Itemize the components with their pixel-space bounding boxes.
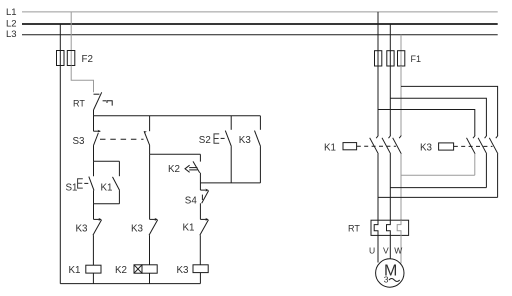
svg-text:F2: F2 <box>82 54 93 65</box>
wire left control rail (L2 down to bottom rail) <box>59 66 61 284</box>
pushbutton S1 <box>66 161 95 204</box>
wire L2 phase down (power) <box>389 24 391 51</box>
fuse F2 <box>57 51 93 66</box>
wire S1 branch bottom <box>94 203 120 205</box>
mechanical link K3 (dashed) <box>454 145 493 147</box>
coil K1 <box>69 265 102 284</box>
svg-text:K1: K1 <box>183 223 195 234</box>
pushbutton S2 <box>199 116 232 183</box>
svg-text:V: V <box>383 246 389 256</box>
contact K1 pole 2 <box>382 136 391 221</box>
contact K3 (NC, column B) <box>131 218 158 265</box>
svg-text:K3: K3 <box>131 224 144 235</box>
contact K1 (NO, parallel with S1) <box>101 161 120 204</box>
mechanical link S3 (dashed) <box>100 138 144 140</box>
svg-text:W: W <box>394 246 402 256</box>
wire RT to motor V <box>389 235 391 259</box>
node L3 <box>6 29 17 40</box>
node L1 <box>6 7 17 18</box>
wire phase2 to K1 pole2 <box>389 66 391 136</box>
svg-text:U: U <box>369 246 375 256</box>
contact K3 pole 2 <box>478 136 487 188</box>
wire branch phase3 to K3 pole3 <box>401 86 498 135</box>
thermal overload RT <box>348 220 409 235</box>
svg-text:K3: K3 <box>76 224 89 235</box>
svg-text:S2: S2 <box>199 135 211 146</box>
svg-text:S4: S4 <box>185 195 198 206</box>
wire L1 rail <box>22 11 498 13</box>
svg-text:RT: RT <box>348 224 360 234</box>
wire K3 pole1 to phase3 (reversal) <box>401 174 475 176</box>
wire branch phase1 to K3 pole1 <box>378 110 475 136</box>
svg-text:L2: L2 <box>6 19 17 30</box>
wire S3 pole2 to K2 contact <box>150 153 201 155</box>
wire RT to motor W <box>400 235 402 263</box>
contact K3 (NO, right of S2) <box>239 116 261 183</box>
contactor K3 coil box <box>420 143 454 154</box>
contact K3 pole 1 <box>467 136 476 176</box>
svg-text:F1: F1 <box>411 54 422 64</box>
svg-text:S3: S3 <box>73 136 86 147</box>
contact K1 pole 3 <box>393 136 402 221</box>
svg-text:3: 3 <box>384 275 389 285</box>
node L2 <box>6 19 17 30</box>
wire RT to junction <box>93 110 95 116</box>
svg-text:K3: K3 <box>420 143 433 154</box>
wire S1 branch top <box>94 160 120 162</box>
switch S4 <box>185 183 209 220</box>
svg-text:L1: L1 <box>6 7 17 18</box>
svg-text:K1: K1 <box>69 265 81 276</box>
svg-text:K3: K3 <box>177 265 190 276</box>
wire phase1 to K1 pole1 <box>377 66 379 136</box>
wire L2 to fuse F2 left <box>59 24 61 51</box>
wire L1 to fuse F2 right <box>70 12 72 51</box>
contact K1 (NC, column C) <box>183 218 209 265</box>
svg-text:RT: RT <box>73 99 85 109</box>
contact K2 (impulse, arrow) <box>168 154 200 183</box>
wire K3 pole2 to phase2 <box>390 187 486 189</box>
wire L3 phase down (power) <box>400 35 402 51</box>
contact K1 pole 1 <box>370 136 379 221</box>
contactor K1 coil box <box>324 143 357 154</box>
wire column A down <box>93 204 95 220</box>
coil K3 <box>177 265 209 284</box>
contact RT (NC thermal) <box>73 92 112 110</box>
wire phase3 to K1 pole3 <box>400 66 402 136</box>
svg-text:L3: L3 <box>6 29 17 40</box>
wire merge rail (K2/S2/K3) <box>200 182 260 184</box>
wire column B down to K3 contact <box>149 154 151 219</box>
wire L1 phase down (power) <box>377 12 379 51</box>
contact K3 (NC, column A) <box>76 218 102 265</box>
wire L3 rail <box>22 34 498 36</box>
wire bottom control rail <box>60 283 200 285</box>
wire branch phase2 to K3 pole2 <box>390 98 486 136</box>
svg-text:K2: K2 <box>115 265 127 276</box>
wire L2 rail <box>22 23 498 25</box>
mechanical link K1 (dashed) <box>357 145 396 147</box>
contact K3 pole 3 <box>489 136 498 198</box>
svg-text:S1: S1 <box>66 183 78 194</box>
svg-text:K2: K2 <box>168 164 180 175</box>
svg-text:K1: K1 <box>324 143 336 154</box>
motor M 3~ <box>376 259 404 287</box>
switch S3 pole 1 <box>73 116 101 162</box>
wire fuse F2 to RT (jog) <box>71 66 93 93</box>
wire top branch rail <box>94 115 261 117</box>
fuse F1 <box>375 51 422 66</box>
svg-text:K3: K3 <box>239 135 252 146</box>
switch S3 pole 2 <box>144 116 150 155</box>
svg-text:K1: K1 <box>101 183 113 194</box>
wire K3 pole3 to phase1 (reversal) <box>378 196 498 198</box>
coil K2 (impulse relay) <box>115 265 157 284</box>
wire RT to motor U <box>377 235 379 262</box>
